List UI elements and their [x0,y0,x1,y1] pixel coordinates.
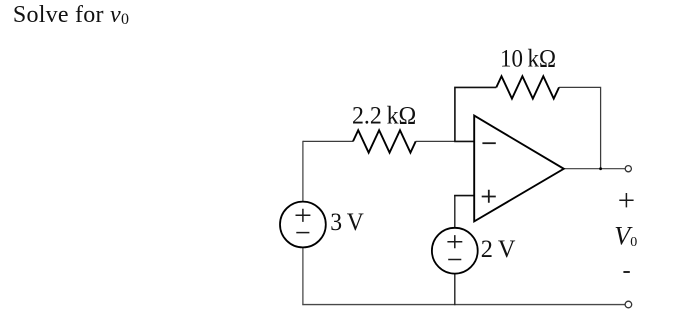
svg-text:3 V: 3 V [330,209,364,236]
svg-text:Solve for v0: Solve for v0 [13,2,129,28]
svg-text:V0: V0 [614,221,637,250]
svg-text:2 V: 2 V [481,236,516,263]
svg-text:2.2 kΩ: 2.2 kΩ [352,103,416,130]
svg-text:10 kΩ: 10 kΩ [500,46,556,73]
